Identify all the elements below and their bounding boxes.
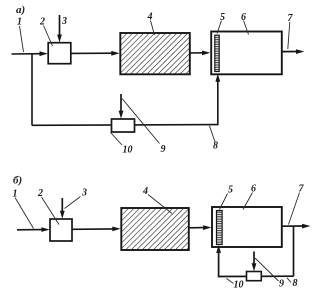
block 2 (b): [50, 219, 72, 241]
wire: input signal 3 arrow into top of block 2 (b): [60, 198, 65, 219]
leader from callout 5 to strip 5 (a): [217, 21, 222, 34]
leader from callout 8 to feedback corner (b): [287, 278, 291, 283]
wire: block 4 output to block 6 (a): [190, 51, 211, 56]
block 4 (a), hatched: [120, 33, 190, 74]
svg-text:б): б): [13, 175, 22, 187]
leader from callout 7 to output wire (a): [288, 22, 290, 49]
svg-text:5: 5: [228, 185, 233, 196]
leader from callout 3 to arrow 3 (b): [65, 197, 81, 209]
leader from callout 10 to block 10 (a): [111, 133, 123, 146]
block 10 (b): [247, 272, 262, 281]
svg-text:8: 8: [213, 141, 218, 152]
wire: input signal 9 arrow into top of block 10 (a): [119, 94, 124, 119]
wire: input signal 1 into block 2 (b): [17, 227, 50, 232]
leader from callout 10 to feedback wire (b): [227, 279, 234, 284]
leader from callout 2 to block 2 (a): [44, 26, 53, 47]
svg-text:10: 10: [234, 280, 244, 291]
svg-text:6: 6: [251, 184, 256, 195]
svg-text:4: 4: [147, 12, 153, 23]
wire: feedback bottom run from tap to riser (a): [32, 124, 219, 127]
svg-text:9: 9: [279, 279, 284, 290]
svg-text:8: 8: [293, 278, 298, 289]
wire: input signal 1 into block 2 (a): [12, 51, 48, 56]
wire: block 2 output to block 4 (a): [71, 51, 120, 56]
wire: feedback riser 8 up into strip 5 (a): [215, 74, 220, 125]
junction: feedback tap on input wire (a): [31, 54, 33, 126]
svg-text:3: 3: [81, 188, 87, 199]
leader from callout 6 to block 6 (a): [244, 21, 249, 35]
leader from callout 4 to block 4 (a): [151, 21, 155, 36]
block 6 (b): [212, 207, 282, 247]
wire: block 4 output to block 6 (b): [189, 225, 211, 230]
svg-text:4: 4: [142, 186, 148, 197]
leader from callout 1 to input wire (b): [15, 198, 34, 229]
wire: feedback riser 8 up into strip 5 (b): [216, 245, 221, 277]
block 4 (b), hatched: [121, 208, 189, 250]
leader from callout 1 to input wire (a): [20, 26, 24, 52]
svg-text:10: 10: [123, 145, 133, 156]
leader from callout 7 to output wire (b): [289, 193, 300, 225]
strip 5 inside block 6 (a): [215, 35, 219, 71]
leader from callout 9 to arrow 9 (b): [255, 258, 279, 281]
leader from callout 5 to strip 5 (b): [220, 194, 228, 210]
wire: feedback bottom run (b): [218, 275, 294, 277]
wire: output signal 7 from block 6 (b): [282, 224, 311, 229]
wire: block 2 output to block 4 (b): [72, 227, 121, 232]
leader from callout 9 to arrow 9 (a): [122, 99, 160, 144]
svg-text:1: 1: [17, 17, 22, 28]
leader from callout 6 to block 6 (b): [243, 193, 253, 210]
block 2 (a): [48, 43, 71, 64]
svg-text:3: 3: [61, 16, 67, 27]
leader from callout 8 to feedback wire (a): [210, 126, 216, 142]
wire: output signal 7 from block 6 (a): [282, 49, 305, 54]
wire: feedback drop from output wire (b): [293, 226, 295, 276]
leader from callout 2 to block 2 (b): [42, 197, 60, 225]
svg-text:а): а): [16, 4, 25, 16]
wire: input signal 3 arrow into top of block 2 (a): [57, 15, 62, 43]
leader from callout 4 to block 4 (b): [148, 195, 172, 214]
svg-text:9: 9: [161, 144, 166, 155]
block 10 (a): [112, 119, 135, 132]
wire: input signal 9 arrow into top of block 10 (b): [252, 252, 257, 272]
block 6 (a): [211, 32, 282, 75]
strip 5 inside block 6 (b): [217, 211, 223, 245]
